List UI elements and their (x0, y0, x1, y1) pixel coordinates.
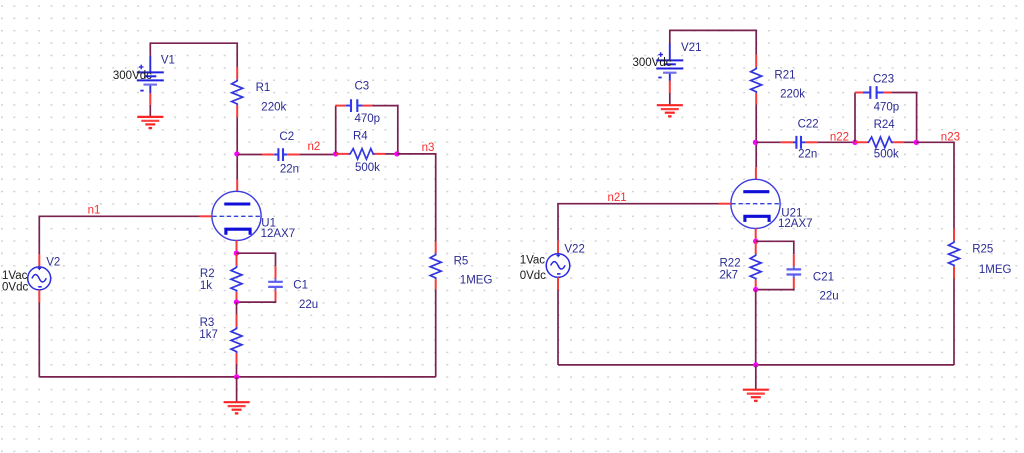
pin V22 top (557, 241, 559, 254)
pin V1 bottom (149, 93, 151, 105)
ground bottom left (224, 402, 250, 413)
wire n1 (39, 216, 199, 254)
svg-text:12AX7: 12AX7 (261, 228, 296, 240)
wire R3 to rail (236, 364, 238, 377)
wire V22 to rail (557, 290, 559, 365)
svg-text:R2: R2 (200, 268, 215, 280)
svg-text:12AX7: 12AX7 (778, 218, 813, 230)
pin U1 plate (236, 179, 238, 191)
svg-text:n1: n1 (88, 205, 101, 217)
dc source V1 (137, 56, 164, 93)
capacitor C1 (268, 266, 283, 301)
junction at R21/C22 node (753, 140, 758, 145)
pin V2 top (38, 254, 40, 267)
wire bottom rail left circuit (39, 376, 435, 378)
ac source V2 (28, 267, 51, 290)
wire n2 up to C3 (335, 106, 337, 154)
svg-text:1k7: 1k7 (199, 329, 218, 341)
pin U21 cathode (755, 229, 757, 241)
svg-text:V21: V21 (681, 42, 701, 54)
wire C22 to n22 junction (817, 141, 855, 143)
capacitor C22 (781, 136, 818, 149)
junction cathode node (234, 251, 239, 256)
svg-text:220k: 220k (261, 102, 286, 114)
junction n2 (333, 151, 338, 156)
svg-text:470p: 470p (355, 113, 381, 125)
pin U21 plate (755, 167, 757, 179)
wire C23 to n23 branch (891, 93, 916, 143)
svg-text:22u: 22u (820, 291, 839, 303)
svg-text:R1: R1 (256, 82, 271, 94)
resistor R22 (750, 241, 761, 289)
svg-text:R22: R22 (720, 257, 741, 269)
ground at V21 (657, 105, 683, 116)
svg-text:R24: R24 (874, 119, 896, 131)
pin U1 cathode (236, 241, 238, 253)
svg-text:1Vac: 1Vac (2, 270, 28, 282)
pin U21 grid (719, 203, 731, 205)
pin V2 bottom (38, 290, 40, 302)
wire C1 bottom to cathode bottom (237, 301, 276, 302)
wire n3 to R5 (397, 154, 436, 242)
capacitor C21 (787, 254, 802, 288)
pin V22 bottom (557, 277, 559, 290)
junction R22 bottom (753, 287, 758, 292)
svg-text:500k: 500k (874, 149, 899, 161)
svg-text:V2: V2 (46, 256, 60, 268)
resistor R2 (231, 253, 242, 302)
svg-text:V1: V1 (161, 55, 175, 67)
wire C2 to n2 junction (299, 154, 335, 156)
wire junction to C2 (237, 154, 262, 156)
wire R25 to rail (953, 279, 955, 365)
wire rail to ground left (236, 377, 238, 402)
svg-text:22u: 22u (299, 299, 318, 311)
wire R5 to rail (435, 289, 437, 377)
svg-text:R3: R3 (200, 317, 215, 329)
svg-text:C2: C2 (279, 131, 294, 143)
svg-text:C1: C1 (293, 280, 308, 292)
wire R21 to tube plate (755, 104, 757, 167)
svg-text:22n: 22n (280, 163, 299, 175)
svg-text:300Vdc: 300Vdc (633, 57, 672, 69)
pin V21 bottom (669, 81, 671, 93)
ac source V22 (546, 254, 570, 278)
dc source V21 (656, 44, 683, 81)
wire n23 to R25 (916, 142, 954, 228)
svg-text:500k: 500k (355, 162, 380, 174)
resistor R3 (231, 315, 242, 364)
wire R2 to R3 (236, 302, 238, 315)
capacitor C23 (855, 86, 891, 99)
resistor R1 (232, 67, 243, 117)
svg-text:470p: 470p (874, 101, 900, 113)
wire R22 to rail (755, 290, 757, 365)
svg-text:C23: C23 (873, 74, 894, 86)
wire V21 to ground (669, 93, 671, 105)
capacitor C3 (336, 99, 373, 112)
resistor R21 (751, 55, 762, 104)
svg-text:C22: C22 (798, 119, 819, 131)
resistor R4 (336, 149, 397, 160)
wire C21 bottom to cathode bottom (756, 288, 794, 289)
junction R2 bottom (234, 299, 239, 304)
wire junction to C22 (756, 141, 781, 143)
ground bottom right (743, 390, 769, 401)
wire V1 to ground (149, 105, 151, 117)
capacitor C2 (262, 148, 299, 161)
svg-text:R5: R5 (454, 256, 469, 268)
svg-text:C21: C21 (813, 272, 834, 284)
triode U21 (731, 179, 780, 228)
resistor R24 (855, 137, 916, 148)
svg-text:0Vdc: 0Vdc (520, 270, 546, 282)
junction n3 (394, 151, 399, 156)
svg-text:22n: 22n (798, 149, 817, 161)
svg-text:1MEG: 1MEG (979, 264, 1012, 276)
ground at V1 (137, 117, 163, 128)
svg-text:1MEG: 1MEG (460, 275, 493, 287)
wire R1 to tube plate (236, 117, 238, 179)
svg-text:n2: n2 (308, 141, 321, 153)
wire rail to ground right (755, 365, 757, 390)
wire C3 to n3 branch (372, 106, 397, 154)
junction rail left (234, 374, 239, 379)
wire bottom rail right circuit (558, 364, 954, 366)
wire n21 (558, 204, 719, 241)
svg-text:R25: R25 (972, 244, 993, 256)
triode U1 (212, 191, 261, 240)
svg-text:300Vdc: 300Vdc (113, 70, 152, 82)
junction cathode node right (753, 239, 758, 244)
svg-text:220k: 220k (780, 89, 805, 101)
svg-text:C3: C3 (355, 80, 370, 92)
pin U1 grid (200, 215, 212, 217)
junction n22 (852, 140, 857, 145)
svg-text:n3: n3 (422, 142, 435, 154)
wire cathode to C1 top (237, 253, 276, 266)
resistor R25 (949, 229, 960, 279)
wire cathode to C21 top (756, 241, 794, 254)
junction rail right (753, 362, 758, 367)
junction at R1/C2 node (234, 151, 239, 156)
svg-text:n21: n21 (608, 192, 627, 204)
wire V2 to rail (38, 302, 40, 377)
junction n23 (914, 140, 919, 145)
wire top rail right circuit (670, 30, 756, 55)
resistor R5 (430, 242, 441, 290)
wire n22 up to C23 (854, 93, 856, 143)
svg-text:V22: V22 (564, 243, 584, 255)
wire top rail left circuit (150, 43, 237, 67)
svg-text:R21: R21 (774, 69, 795, 81)
svg-text:0Vdc: 0Vdc (2, 281, 28, 293)
svg-text:R4: R4 (353, 131, 368, 143)
svg-text:1k: 1k (200, 280, 212, 292)
svg-text:2k7: 2k7 (720, 269, 739, 281)
svg-text:1Vac: 1Vac (520, 255, 546, 267)
